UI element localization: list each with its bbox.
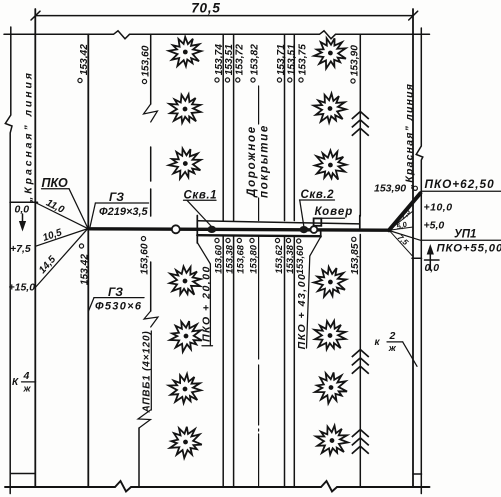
svg-text:0,0: 0,0 — [425, 262, 440, 274]
frame top edge with breaks — [4, 31, 430, 39]
svg-text:Ковер: Ковер — [315, 206, 354, 218]
level mark circles below pipe — [79, 244, 83, 248]
svg-text:Ф530×6: Ф530×6 — [95, 300, 142, 312]
PKO underline — [42, 188, 70, 190]
svg-text:Дорожное: Дорожное — [246, 125, 258, 198]
tree 7 left column — [164, 422, 206, 462]
svg-text:153,60: 153,60 — [294, 245, 305, 274]
cable line bottom solid — [138, 428, 140, 487]
right fan line 7,5 — [389, 230, 412, 255]
cable line break 3 — [138, 410, 151, 428]
svg-text:153,68: 153,68 — [235, 244, 246, 273]
K4zh fraction bar — [22, 381, 36, 383]
right fan line 5,0 — [389, 227, 413, 230]
right bottom tick — [413, 473, 422, 475]
svg-text:УП1: УП1 — [454, 228, 476, 240]
road edge line 4 — [293, 34, 295, 487]
UP1 leader line — [389, 231, 501, 241]
vertical line x88 — [87, 34, 89, 487]
PKO+20 label end tick — [202, 345, 213, 347]
svg-text:153,90: 153,90 — [350, 45, 361, 76]
road edge line 3 — [284, 34, 286, 487]
road edge line 1 — [222, 34, 224, 487]
tree 1 left column — [169, 37, 201, 66]
svg-text:+5,0: +5,0 — [424, 219, 445, 231]
GZ 219 leader — [90, 203, 95, 227]
tree 3 left column — [166, 146, 203, 180]
tree/bush line x360 — [359, 34, 361, 487]
svg-text:70,5: 70,5 — [191, 0, 220, 15]
svg-text:Ф219×3,5: Ф219×3,5 — [99, 206, 149, 218]
casing top line — [197, 221, 359, 224]
kover open circle — [311, 226, 318, 233]
svg-text:ПКО+55,00: ПКО+55,00 — [437, 243, 501, 255]
svg-text:Скв.1: Скв.1 — [184, 189, 218, 201]
pipeline riser to UP1 — [389, 193, 420, 230]
road centerline (dash-dot) — [258, 86, 260, 487]
dimension line 70,5 — [35, 15, 413, 17]
tree 11 right column — [312, 265, 347, 297]
PKO+20 label line — [209, 264, 211, 345]
GZ 530 leader — [89, 298, 95, 311]
PKO+43 label line — [307, 256, 310, 348]
svg-text:153,75: 153,75 — [298, 44, 309, 75]
left red line (vertical) — [34, 9, 36, 487]
left boundary line — [5, 27, 12, 494]
pipe end level circle — [413, 186, 417, 190]
Skv2 leader — [300, 200, 304, 226]
svg-text:+15,0: +15,0 — [9, 282, 36, 294]
Kover underline — [318, 217, 345, 219]
svg-text:АПВБ1 (4×120): АПВБ1 (4×120) — [142, 331, 153, 414]
dimension tick left — [31, 11, 40, 20]
svg-text:+10,0: +10,0 — [424, 201, 453, 213]
svg-text:ГЗ: ГЗ — [108, 285, 123, 299]
left datum tick 0,0 — [10, 201, 38, 203]
left bottom tick — [10, 473, 35, 475]
svg-text:ж: ж — [23, 384, 32, 395]
GZ 530 fraction bar — [94, 297, 144, 299]
rotated top level labels — [79, 44, 361, 285]
PKO fan line 10,5 — [35, 229, 88, 247]
bushes group middle — [352, 350, 369, 374]
tree 5 left column — [166, 317, 206, 355]
tree 9 right column — [312, 92, 347, 124]
svg-text:ГЗ: ГЗ — [109, 190, 124, 204]
tree 12 right column — [310, 316, 349, 353]
dimension tick right — [409, 11, 418, 20]
svg-text:ПКО + 20,00: ПКО + 20,00 — [200, 265, 212, 342]
casing bottom right bar — [320, 232, 322, 238]
tree 6 left column — [167, 372, 203, 405]
svg-text:К: К — [12, 377, 19, 388]
bushes group bottom — [352, 430, 369, 454]
road edge line 2 — [233, 34, 235, 487]
svg-text:ПКО + 43,00: ПКО + 43,00 — [296, 273, 308, 350]
bushes group top — [352, 112, 369, 136]
svg-text:153,85: 153,85 — [350, 243, 361, 274]
svg-text:153,60: 153,60 — [213, 244, 224, 273]
gas pipeline (main) — [88, 229, 389, 230]
left datum arrow down — [22, 214, 24, 222]
svg-text:+7,5: +7,5 — [10, 243, 31, 255]
right datum arrow up — [429, 252, 431, 270]
svg-text:„Красная” линия: „Красная” линия — [403, 83, 415, 190]
tree 13 right column — [310, 368, 350, 407]
svg-text:153,51: 153,51 — [286, 44, 297, 75]
borehole Skv.1 dot — [207, 226, 216, 233]
svg-text:153,72: 153,72 — [234, 44, 245, 75]
right datum short line — [425, 259, 440, 261]
svg-text:153,42: 153,42 — [79, 44, 90, 75]
svg-text:ж: ж — [388, 343, 397, 354]
borehole Skv.2 dot — [300, 226, 309, 233]
casing bottom line — [197, 235, 320, 236]
tree 8 right column — [311, 35, 350, 71]
leader slant to PKO+20 — [198, 243, 211, 264]
svg-text:153,60: 153,60 — [140, 243, 151, 274]
tree 14 right column — [313, 423, 350, 457]
casing right end bar — [359, 216, 361, 229]
svg-text:2: 2 — [389, 330, 396, 342]
casing left end bar — [196, 216, 198, 244]
svg-text:153,90: 153,90 — [374, 182, 406, 194]
Skv2 underline — [300, 199, 335, 201]
svg-text:покрытие: покрытие — [259, 124, 271, 198]
cable line along label — [150, 331, 152, 410]
Kover square — [314, 218, 322, 225]
Skv1 leader — [187, 200, 212, 226]
PKO leader — [69, 189, 88, 228]
GZ 219 fraction bar — [95, 202, 148, 204]
svg-text:153,60: 153,60 — [141, 45, 152, 76]
svg-text:153,38: 153,38 — [224, 244, 235, 273]
svg-text:ПКО: ПКО — [42, 176, 69, 190]
svg-text:Скв.2: Скв.2 — [301, 189, 335, 201]
leader slant to PKO+43 — [310, 237, 321, 256]
svg-text:153,42: 153,42 — [80, 254, 91, 285]
svg-text:„Красная” линия: „Красная” линия — [23, 70, 35, 203]
right datum tick — [412, 257, 422, 259]
PKO+62,50 underline — [421, 190, 501, 192]
svg-text:4: 4 — [23, 370, 30, 382]
cable line break (zigzag) — [144, 104, 158, 122]
tree 4 left column — [164, 261, 205, 300]
frame bottom edge with breaks — [5, 481, 430, 492]
cable line APVB1 upper solid — [150, 34, 152, 104]
right red line x413 with breaks — [412, 9, 414, 487]
cable line dashed segments — [150, 147, 152, 216]
cable line break 2 — [144, 311, 158, 327]
PKO fan line 11,0 — [35, 203, 88, 229]
cable line below pipe — [150, 262, 152, 311]
svg-text:ПКО+62,50: ПКО+62,50 — [425, 177, 495, 191]
level mark circles top — [78, 78, 418, 248]
svg-text:153,80: 153,80 — [248, 244, 259, 273]
svg-text:0,0: 0,0 — [15, 203, 30, 215]
tree 10 right column — [309, 144, 351, 185]
K2zh fraction bar — [387, 341, 403, 343]
svg-text:153,62: 153,62 — [273, 244, 284, 273]
Skv1 underline — [184, 199, 217, 201]
K2zh leader — [403, 342, 417, 366]
right fan line 2,5 — [389, 211, 413, 230]
pipe open circle left — [172, 225, 180, 233]
PKO fan line 14,5 — [35, 229, 88, 288]
svg-text:153,82: 153,82 — [250, 44, 261, 75]
tree 2 left column — [166, 90, 205, 126]
right boundary line x421 — [416, 28, 423, 494]
